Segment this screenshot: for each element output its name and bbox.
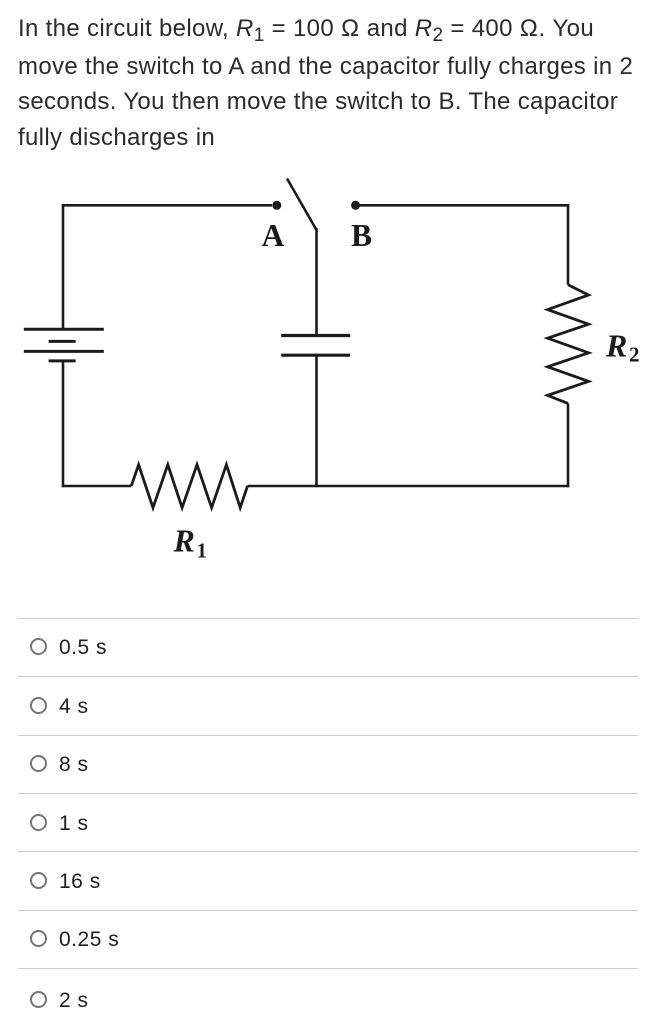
wire right vertical (resistor R2 to bottom corner)	[567, 403, 570, 487]
wire top-left horizontal (battery to switch contact A)	[62, 204, 272, 207]
wire top-right horizontal (switch contact B to right corner)	[356, 204, 570, 207]
svg-text:R: R	[173, 522, 195, 558]
node A contact dot	[272, 201, 281, 210]
question text	[18, 11, 653, 155]
svg-text:B: B	[351, 218, 372, 253]
wire bottom horizontal (resistor R1 to right corner, through junction)	[248, 485, 570, 488]
node B contact dot	[351, 201, 360, 210]
wire capacitor bottom lead to bottom wire junction	[315, 355, 318, 487]
svg-text:1: 1	[197, 539, 208, 563]
wire switch pole down to capacitor top plate	[315, 228, 318, 336]
resistor R2 (vertical zigzag)	[548, 285, 589, 404]
wire right vertical (top corner to resistor R2)	[567, 204, 570, 285]
svg-text:2: 2	[629, 343, 640, 367]
svg-text:R: R	[605, 327, 627, 363]
svg-text:A: A	[262, 218, 285, 253]
resistor R1 (horizontal zigzag)	[131, 465, 247, 508]
battery V1	[24, 329, 104, 361]
wire bottom horizontal (left corner to resistor R1)	[62, 485, 132, 488]
answer options	[18, 618, 638, 619]
capacitor C1	[281, 336, 350, 356]
switch SW blade (thrown between A and B)	[287, 179, 317, 231]
wire left vertical (battery - to bottom corner)	[62, 361, 65, 487]
wire left vertical (top corner to battery +)	[62, 204, 65, 329]
